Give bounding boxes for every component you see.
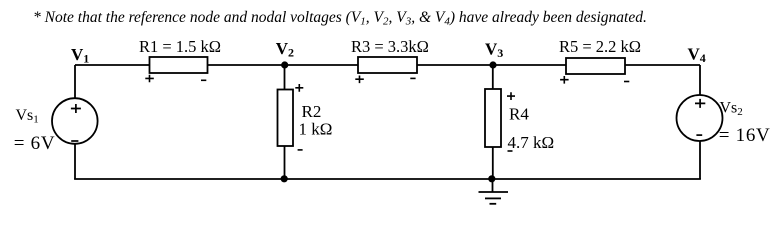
resistor R5 xyxy=(566,58,625,74)
svg-text:4.7 kΩ: 4.7 kΩ xyxy=(508,133,555,152)
svg-text:R5 = 2.2 kΩ: R5 = 2.2 kΩ xyxy=(559,37,641,56)
source Vs1 plus xyxy=(71,104,81,113)
wire R2 branch xyxy=(284,65,286,179)
polarity R3 minus xyxy=(410,77,415,79)
polarity R5 minus xyxy=(624,81,629,83)
ground xyxy=(479,179,509,204)
wire top xyxy=(75,64,700,66)
resistor R4 xyxy=(485,89,501,147)
svg-text:R2: R2 xyxy=(302,102,322,121)
junction dot bottom R4 (ground node) xyxy=(488,175,495,182)
source Vs1 minus xyxy=(71,140,78,142)
source Vs2 minus xyxy=(696,134,702,136)
wire left vertical xyxy=(74,65,76,179)
node V3 junction dot xyxy=(489,61,496,68)
source Vs2 plus xyxy=(695,99,705,108)
wire bottom xyxy=(74,178,701,180)
wire R4 branch xyxy=(492,65,494,179)
polarity R1 minus xyxy=(201,79,206,81)
junction dot bottom R2 xyxy=(281,175,288,182)
polarity R1 plus xyxy=(145,75,154,83)
svg-text:R3 = 3.3kΩ: R3 = 3.3kΩ xyxy=(351,37,429,56)
polarity R2 plus xyxy=(295,84,303,92)
svg-text:* Note that the reference node: * Note that the reference node and nodal… xyxy=(33,9,647,28)
resistor R3 xyxy=(358,57,417,73)
svg-text:R1 = 1.5 kΩ: R1 = 1.5 kΩ xyxy=(139,37,221,56)
polarity R2 minus xyxy=(298,149,303,151)
svg-text:R4: R4 xyxy=(509,105,529,124)
svg-text:= 6V: = 6V xyxy=(14,133,56,154)
polarity R4 minus xyxy=(508,150,513,152)
resistor R1 xyxy=(150,57,208,73)
wire right vertical xyxy=(699,65,701,179)
polarity R3 plus xyxy=(355,76,364,84)
source Vs1 circle xyxy=(52,98,98,144)
node V2 junction dot xyxy=(281,61,288,68)
polarity R4 plus xyxy=(507,92,515,100)
svg-text:= 16V: = 16V xyxy=(719,125,771,146)
polarity R5 plus xyxy=(560,76,569,84)
svg-text:1 kΩ: 1 kΩ xyxy=(299,120,333,139)
resistor R2 xyxy=(278,90,294,147)
source Vs2 circle xyxy=(677,95,723,141)
